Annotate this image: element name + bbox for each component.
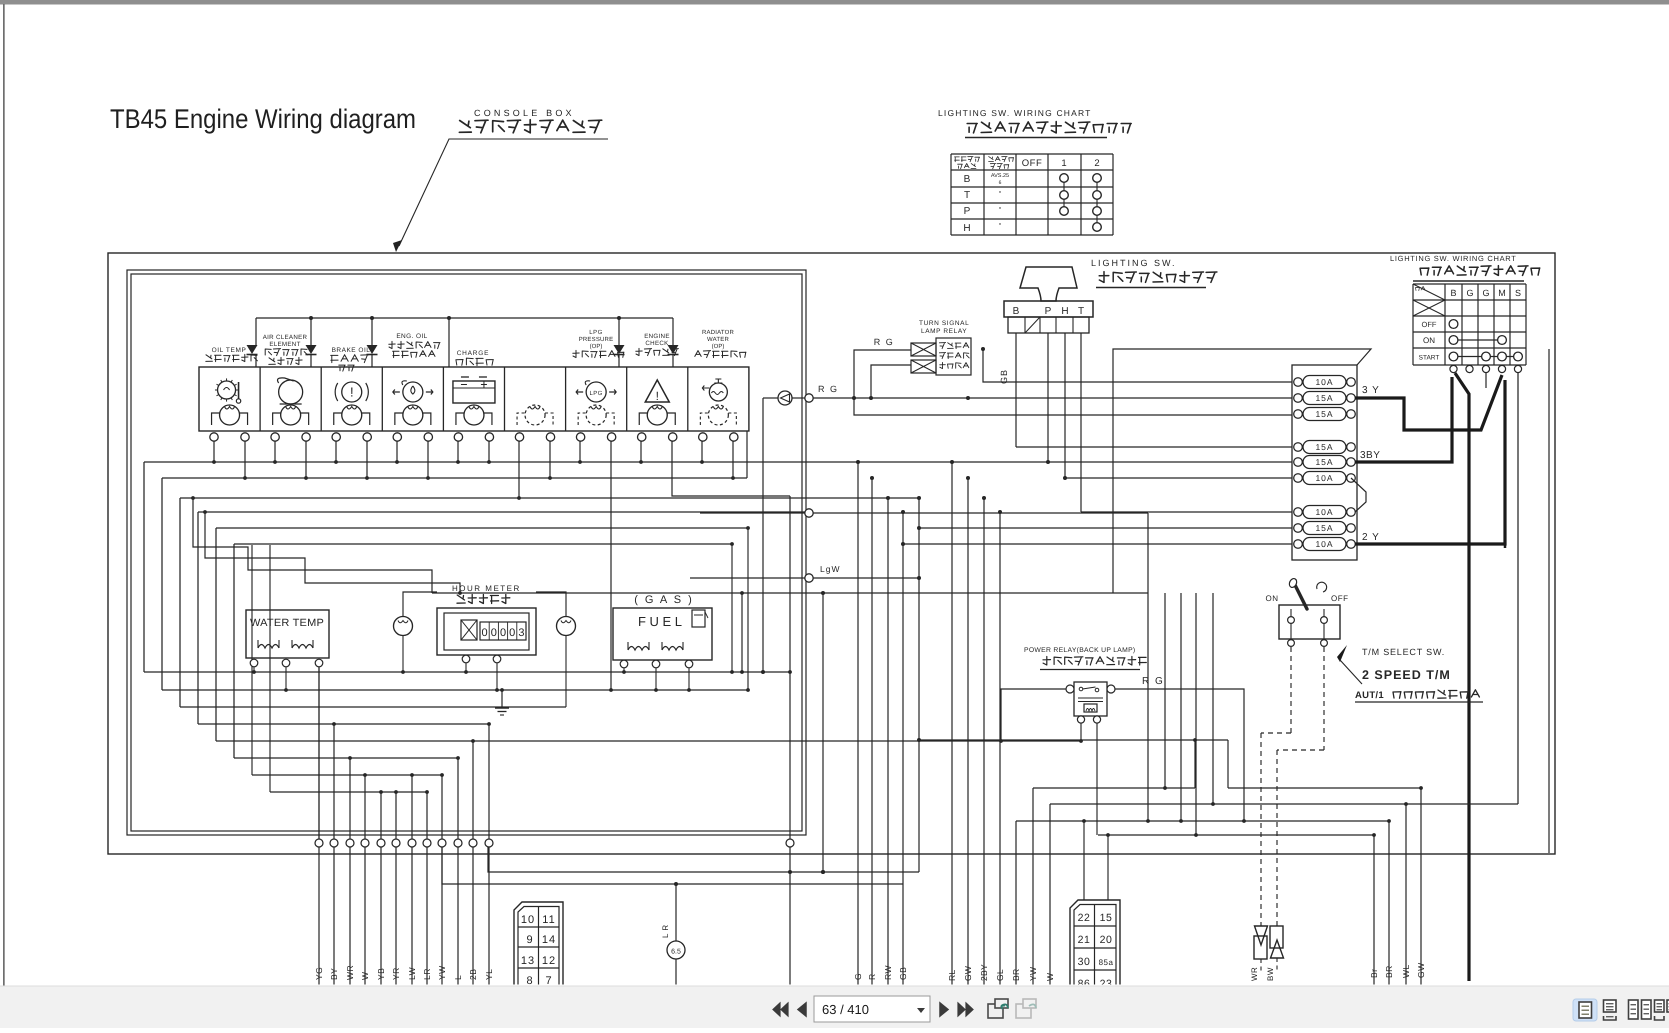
svg-text:0: 0 — [500, 627, 506, 639]
svg-text:WATER: WATER — [707, 336, 729, 343]
svg-text:YB: YB — [376, 968, 386, 980]
wire from ladder to relay area — [1194, 740, 1196, 788]
lighting sw wiring chart table — [950, 154, 952, 235]
top supply bus wire — [256, 317, 673, 319]
bottom connector block 1 — [514, 902, 563, 988]
svg-text:15A: 15A — [1315, 393, 1333, 403]
svg-text:WR: WR — [1250, 967, 1259, 981]
svg-text:11: 11 — [542, 914, 555, 926]
next page button — [940, 1003, 948, 1016]
mid vertical wires group1 — [1147, 513, 1149, 821]
svg-text:13: 13 — [521, 955, 535, 967]
T/M switch dashed wires — [1290, 647, 1292, 733]
panel lamp left — [394, 617, 413, 636]
svg-text:10A: 10A — [1315, 473, 1333, 483]
console box leader line — [399, 139, 608, 246]
svg-text:LIGHTING SW. WIRING CHART: LIGHTING SW. WIRING CHART — [938, 108, 1092, 118]
svg-text:0: 0 — [482, 627, 488, 639]
right bottom horizontals — [1033, 787, 1195, 789]
GB wire to fuse — [1016, 446, 1292, 448]
wire corner feed — [432, 592, 1148, 594]
svg-text:RW: RW — [883, 965, 893, 980]
viewer left border — [3, 4, 5, 986]
svg-text:10: 10 — [521, 914, 535, 926]
svg-text:F U E L: F U E L — [638, 614, 682, 629]
wires to bottom labels BR YW W — [1015, 821, 1017, 985]
svg-text:AIR CLEANER: AIR CLEANER — [263, 334, 308, 341]
svg-text:GW: GW — [963, 966, 973, 981]
svg-text:R G: R G — [874, 337, 895, 347]
starting switch G2 stub — [1485, 373, 1487, 388]
svg-text:ELEMENT: ELEMENT — [269, 341, 300, 348]
wire to turn signal relay — [854, 350, 911, 398]
svg-text:30: 30 — [1078, 956, 1091, 968]
svg-text:G: G — [1482, 288, 1489, 298]
svg-text:9: 9 — [526, 934, 533, 946]
svg-text:CONSOLE BOX: CONSOLE BOX — [474, 108, 575, 118]
RG terminal on instrument panel — [805, 394, 813, 402]
svg-text:W: W — [360, 971, 370, 980]
thick wire battery feed — [1455, 373, 1469, 981]
svg-text:YW: YW — [437, 965, 447, 980]
indicator lamps — [220, 405, 240, 425]
svg-text:YL: YL — [484, 969, 494, 980]
fuse F5 15A — [1303, 456, 1346, 469]
T/M select switch — [1279, 605, 1340, 639]
svg-text:6.5: 6.5 — [671, 949, 681, 956]
svg-text:ENG. OIL: ENG. OIL — [396, 333, 427, 340]
fuse jog wire — [1351, 478, 1366, 512]
svg-text:10A: 10A — [1315, 539, 1333, 549]
last page button — [958, 1003, 973, 1016]
svg-text:WL: WL — [1401, 964, 1411, 978]
LgW wire — [690, 577, 805, 579]
svg-text:2 SPEED T/M: 2 SPEED T/M — [1362, 668, 1451, 682]
svg-text:CHARGE: CHARGE — [457, 350, 490, 357]
thick wire 3BY — [1355, 377, 1452, 462]
svg-text:2BY: 2BY — [979, 964, 989, 981]
previous page button — [798, 1003, 806, 1016]
svg-text:TURN SIGNAL: TURN SIGNAL — [919, 320, 969, 327]
svg-text:ON: ON — [1266, 594, 1279, 603]
svg-text:OIL TEMP: OIL TEMP — [212, 347, 247, 354]
svg-text:OFF: OFF — [1422, 320, 1437, 329]
wire right edge vertical — [1548, 349, 1550, 853]
svg-text:BRAKE OIL: BRAKE OIL — [332, 347, 371, 354]
wire stub to L1 bus — [741, 593, 743, 672]
one-way valve symbol on RG wire — [778, 391, 792, 405]
svg-text:OFF: OFF — [1022, 158, 1043, 169]
svg-text:2: 2 — [1094, 158, 1099, 169]
svg-text:2B: 2B — [468, 969, 478, 980]
fuse F2 15A — [1303, 392, 1346, 405]
svg-text:BR: BR — [1384, 965, 1394, 978]
svg-text:AUT/1: AUT/1 — [1355, 690, 1384, 701]
svg-text:GL: GL — [995, 969, 1005, 981]
console box outer rectangle — [108, 253, 1555, 854]
wire 919 corner — [918, 498, 920, 872]
svg-text:T: T — [1078, 306, 1084, 317]
svg-text:POWER RELAY(BACK UP LAMP): POWER RELAY(BACK UP LAMP) — [1024, 647, 1136, 654]
svg-text:R G: R G — [818, 384, 839, 394]
svg-text:GB: GB — [898, 967, 908, 980]
svg-text:YG: YG — [314, 967, 324, 980]
wire bus fuse feeds horizontal — [144, 461, 1292, 463]
diagonal staircase wire B — [205, 512, 460, 593]
fusible link components — [1255, 926, 1268, 945]
water temp gauge — [246, 610, 329, 658]
svg-text:10A: 10A — [1315, 377, 1333, 387]
module terminal drop wires — [213, 441, 215, 462]
svg-text:15A: 15A — [1315, 409, 1333, 419]
svg-text:(OP): (OP) — [590, 343, 603, 350]
panel lamp right — [557, 617, 576, 636]
T/M select labels — [1337, 645, 1347, 662]
svg-text:START: START — [1419, 355, 1440, 362]
instrument panel terminal 2 — [805, 509, 813, 517]
first page button — [773, 1003, 788, 1016]
instrument panel inner rectangle — [127, 270, 806, 835]
fuse F4 15A — [1303, 441, 1346, 454]
svg-text:WATER TEMP: WATER TEMP — [250, 617, 324, 629]
svg-text:TB45 Engine Wiring diagram: TB45 Engine Wiring diagram — [110, 104, 416, 134]
two page view button — [1629, 1000, 1639, 1019]
wire drops to bottom connector circles — [318, 664, 320, 839]
svg-text:LR: LR — [422, 968, 432, 980]
lighting switch pin wires — [1015, 333, 1017, 447]
fuse F3 15A — [1303, 408, 1346, 421]
svg-text:RADIATOR: RADIATOR — [702, 329, 735, 336]
svg-text:63 / 410: 63 / 410 — [822, 1002, 869, 1017]
thick wire 2Y — [1355, 380, 1505, 544]
svg-text:H: H — [1061, 306, 1068, 317]
svg-text:10A: 10A — [1315, 507, 1333, 517]
thick wire 3Y — [1355, 375, 1502, 430]
wires to bottom mid labels G R RW GB — [857, 462, 859, 985]
svg-text:3 Y: 3 Y — [1362, 385, 1380, 396]
radiator water symbol — [709, 383, 727, 401]
svg-text:ON: ON — [1423, 336, 1435, 345]
svg-text:R G: R G — [1142, 676, 1164, 687]
svg-text:BW: BW — [1266, 967, 1275, 981]
wire from terminal 2 — [700, 512, 805, 514]
svg-text:BY: BY — [329, 968, 339, 980]
engine oil pressure symbol — [403, 382, 423, 402]
diode D1 — [247, 345, 258, 354]
svg-text:YW: YW — [1028, 967, 1038, 981]
svg-text:LgW: LgW — [820, 564, 840, 574]
LgW terminal — [805, 574, 813, 582]
svg-text:0: 0 — [491, 627, 497, 639]
fuse feed staircase from RG area — [854, 398, 1292, 415]
svg-text:WR: WR — [345, 965, 355, 980]
svg-text:R: R — [867, 973, 877, 980]
fuse F6 10A — [1303, 472, 1346, 485]
RG wire — [763, 397, 778, 399]
svg-text:W: W — [1045, 973, 1055, 981]
svg-text:P: P — [964, 206, 971, 217]
svg-text:20: 20 — [1100, 934, 1113, 946]
lighting switch — [1020, 267, 1077, 301]
wire c8R to vertical 790 — [672, 441, 790, 496]
svg-text:LPG: LPG — [590, 390, 603, 397]
brake oil symbol — [342, 382, 362, 402]
ground symbol — [501, 690, 503, 708]
chart circles — [1449, 320, 1458, 329]
previous view button — [988, 1004, 1003, 1018]
engine check warning symbol — [645, 380, 669, 402]
svg-text:B: B — [964, 174, 971, 185]
chart contact links — [1063, 178, 1065, 211]
viewer top border — [0, 0, 1669, 5]
svg-text:B: B — [1450, 288, 1456, 298]
svg-text:6: 6 — [999, 180, 1002, 186]
svg-text:PRESSURE: PRESSURE — [579, 336, 614, 343]
bottom connector block 2 — [1070, 900, 1120, 988]
svg-text:ENGINE: ENGINE — [644, 333, 670, 340]
svg-text:L: L — [453, 975, 463, 980]
charge battery symbol — [453, 381, 495, 403]
indicator lamp module row — [199, 367, 749, 431]
fuse F8 15A — [1303, 522, 1346, 535]
wires exiting console box bottom — [318, 847, 320, 985]
svg-text:HOUR METER: HOUR METER — [452, 584, 521, 593]
svg-text:H: H — [963, 223, 970, 234]
gauge terminal stubs — [253, 667, 255, 672]
svg-text:M: M — [1498, 288, 1506, 298]
svg-text:S: S — [1515, 288, 1521, 298]
air cleaner symbol — [279, 380, 303, 404]
power relay wires — [1115, 689, 1244, 821]
wires to bottom labels RL GW 2BY GL — [951, 462, 953, 985]
fuel pump icon — [692, 610, 705, 627]
svg-text:GW: GW — [1416, 962, 1426, 978]
svg-text:15A: 15A — [1315, 457, 1333, 467]
two page scroll view button — [1655, 1000, 1665, 1012]
oil temp gauge symbol — [218, 381, 236, 399]
horizontal scrollbar thumb — [20, 988, 819, 992]
svg-text:LPG: LPG — [589, 329, 603, 336]
diagonal staircase wire A — [193, 498, 432, 593]
svg-text:B: B — [1013, 306, 1020, 317]
svg-text:15A: 15A — [1315, 523, 1333, 533]
bottom connector circles on console box edge — [315, 839, 323, 847]
wire loop to starting switch chart — [1113, 349, 1371, 593]
next view button disabled — [1016, 1004, 1031, 1018]
svg-text:12: 12 — [542, 955, 556, 967]
svg-text:!: ! — [656, 389, 659, 403]
svg-text:L R: L R — [661, 924, 670, 938]
svg-text:15: 15 — [1100, 912, 1113, 924]
starting switch chart table — [1412, 284, 1414, 365]
svg-text:T/M SELECT SW.: T/M SELECT SW. — [1362, 647, 1445, 657]
svg-text:YR: YR — [391, 967, 401, 980]
svg-text:RL: RL — [947, 970, 957, 981]
svg-text:GB: GB — [999, 369, 1009, 384]
fuse F9 10A — [1303, 538, 1346, 551]
svg-text:22: 22 — [1078, 912, 1091, 924]
svg-text:3BY: 3BY — [1360, 450, 1380, 461]
module terminals — [210, 433, 218, 441]
svg-text:2 Y: 2 Y — [1362, 532, 1380, 543]
svg-text:BR: BR — [1011, 969, 1021, 981]
svg-text:(OP): (OP) — [712, 343, 725, 350]
svg-text:G: G — [1466, 288, 1473, 298]
svg-text:15A: 15A — [1315, 442, 1333, 452]
wires to bottom right labels — [1373, 835, 1375, 985]
svg-text:( G A S ): ( G A S ) — [634, 594, 694, 606]
lower left distribution wires — [144, 671, 790, 673]
fuse F1 10A — [1303, 376, 1346, 389]
svg-text:LAMP RELAY: LAMP RELAY — [921, 328, 967, 335]
connector 2 feed wires — [1083, 821, 1085, 900]
starting switch S wire — [1517, 373, 1519, 804]
svg-text:P: P — [1045, 306, 1052, 317]
svg-text:T: T — [964, 190, 970, 201]
svg-text:85a: 85a — [1099, 958, 1114, 967]
lpg pressure symbol — [586, 382, 606, 402]
fuse box — [1292, 365, 1357, 560]
svg-text:21: 21 — [1078, 934, 1091, 946]
bottom toolbar — [0, 986, 1669, 1029]
svg-text:!: ! — [350, 385, 354, 400]
svg-text:OFF: OFF — [1331, 594, 1349, 603]
left staircase verticals — [143, 462, 145, 672]
svg-text:G: G — [853, 973, 863, 980]
svg-text:CHECK: CHECK — [645, 340, 669, 347]
wires from bus into modules — [255, 318, 257, 345]
svg-text:Br: Br — [1369, 969, 1379, 979]
starting switch terminals — [1450, 365, 1457, 372]
wire RG down-left — [762, 398, 764, 672]
svg-text:AVS.25: AVS.25 — [991, 173, 1009, 179]
continuous scroll view button — [1604, 1000, 1617, 1012]
svg-text:1: 1 — [1061, 158, 1066, 169]
fuel level sender 6.5ohm — [675, 884, 677, 941]
svg-text:LIGHTING SW. WIRING CHART: LIGHTING SW. WIRING CHART — [1390, 254, 1517, 263]
svg-text:3: 3 — [518, 627, 524, 639]
inner staircase corner wires — [731, 544, 733, 672]
svg-text:0: 0 — [509, 627, 515, 639]
svg-text:14: 14 — [542, 934, 556, 946]
svg-text:LIGHTING SW.: LIGHTING SW. — [1091, 258, 1177, 268]
svg-text:LW: LW — [407, 967, 417, 980]
fuse F7 10A — [1303, 506, 1346, 519]
single page view button active — [1573, 999, 1597, 1021]
page number box — [814, 996, 930, 1022]
bottom long bus wires — [488, 847, 919, 872]
